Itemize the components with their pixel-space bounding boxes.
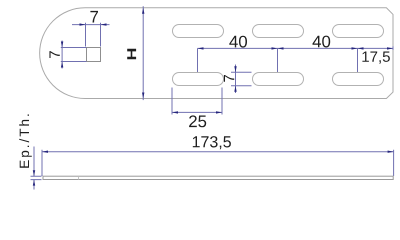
dimension H: dimension line (142, 6, 144, 100)
slot top row 3 (333, 25, 384, 38)
dimension 40 second: right arrow (352, 47, 358, 49)
dimension 7 square height: extension lines (61, 48, 87, 62)
dimension 40 second: label (313, 36, 331, 48)
square hole (87, 48, 101, 62)
dimension 40 first: right arrow (272, 47, 278, 49)
dimension 7 slot height: dimension line (235, 65, 237, 94)
dimension 173,5: left arrow (42, 151, 48, 153)
dimension Ep./Th.: extension ticks (31, 176, 42, 179)
dimension 7 slot height: label (224, 75, 234, 82)
dimension H: label (127, 49, 136, 59)
dimension 7 square height: bottom arrow (61, 62, 63, 68)
dimension 7 square height: label (49, 51, 59, 58)
dimension 40 second: left arrow (278, 47, 284, 49)
dimension Ep./Th.: upper dimension line (33, 147, 35, 177)
dimension 173,5: label (193, 136, 231, 149)
dimension 25: dimension line (172, 111, 222, 113)
plate front view outline (40, 8, 393, 99)
dimension Ep./Th.: upper arrow (33, 170, 35, 176)
dimension 25: label (189, 115, 206, 127)
dimension 7 square height: dimension line (61, 41, 63, 69)
dimension 7 slot height: bottom arrow (234, 86, 236, 92)
slot middle row 2 (253, 73, 304, 86)
dimension 7 square width: left arrow (80, 23, 86, 25)
dimension 7 square width: extension lines (86, 23, 101, 47)
dimension 17,5: left arrow (358, 47, 364, 49)
dimension 25: right arrow (216, 111, 222, 113)
dimension 173,5: dimension line (42, 151, 394, 153)
dimension 40 pitch: dimension line (198, 47, 394, 49)
dimension 25: left arrow (172, 111, 178, 113)
dimension 173,5: right arrow (388, 151, 394, 153)
dimension 40 first: left arrow (198, 47, 204, 49)
dimension H: top arrow (142, 8, 144, 14)
dimension H: bottom arrow (142, 93, 144, 99)
slot top row 1 (173, 25, 224, 38)
dimension 7 slot height: top arrow (234, 66, 236, 72)
dimension 17,5: right extension overshoot (392, 46, 394, 50)
slot top row 2 (253, 25, 304, 38)
slot middle row 3 (333, 73, 384, 86)
slot middle row 1 (173, 73, 224, 86)
dimension 17,5: label (362, 52, 390, 64)
dimension 7 slot height: extension lines (231, 72, 252, 86)
dimension 7 square width: right arrow (101, 23, 107, 25)
dimension 7 square width: dimension line (72, 24, 110, 26)
dimension Ep./Th.: lower arrow (33, 180, 35, 186)
dimension 17,5: right arrow (387, 47, 393, 49)
dimension 25: extension lines (172, 88, 222, 115)
side view plate (43, 176, 393, 179)
dimension 40 first: label (229, 36, 247, 48)
dimension 173,5: extension lines (42, 150, 394, 176)
dimension 7 square height: top arrow (61, 42, 63, 48)
dimension 7 square width: label (90, 11, 98, 23)
dimension Ep./Th.: lower dimension line (33, 180, 35, 190)
side view inner tick (78, 176, 80, 179)
dimension Ep./Th.: label (19, 115, 32, 168)
dimension 40 pitch: extension lines (198, 48, 358, 72)
